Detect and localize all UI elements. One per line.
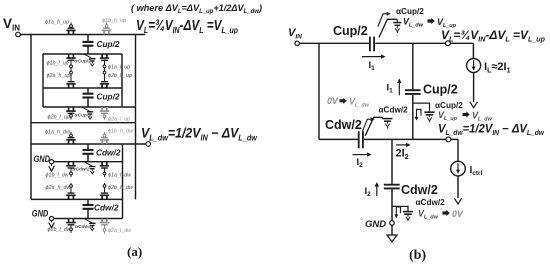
svg-text:GND: GND (34, 154, 51, 164)
node (open terminal) (390, 221, 395, 226)
wire (319, 138, 358, 140)
wire (43, 87, 122, 89)
capacitor Cup/2 (83, 42, 94, 46)
svg-text:αCup/2: αCup/2 (396, 7, 424, 16)
wire (20, 34, 145, 36)
svg-text:Cup/2: Cup/2 (97, 39, 120, 49)
transistor phi1b_l_up (66, 54, 75, 70)
capacitor Cdw/2 (vertical, bottom) (384, 185, 400, 189)
wire (299, 42, 369, 44)
transistor phi2a_h_up (66, 70, 75, 89)
wire (375, 42, 473, 44)
wire (43, 106, 136, 108)
svg-text:Cdw/2: Cdw/2 (94, 203, 119, 213)
transistor phi1b_l_dw (66, 162, 75, 177)
wire (457, 139, 459, 161)
wire (364, 138, 458, 140)
ground (upper GND arrow) (51, 164, 53, 166)
wire (42, 54, 44, 107)
svg-text:αCdw/2: αCdw/2 (73, 167, 90, 173)
wire (121, 54, 123, 107)
transistor phi1b_h_up (102, 22, 111, 34)
capacitor Cup/2 (83, 94, 94, 98)
node (open terminal) (446, 137, 451, 142)
ground (IL arrow) (470, 102, 478, 108)
svg-text:(a): (a) (127, 244, 142, 259)
transistor phi2b_h_up (100, 70, 109, 89)
ground (49, 223, 55, 228)
node (open terminal) (16, 32, 21, 37)
transistor phi2a_h_dw (66, 183, 75, 200)
capacitor alphaCup/2 parasitic (mid) (424, 112, 434, 122)
svg-text:Cdw/2: Cdw/2 (325, 118, 362, 132)
node (open terminal) (49, 216, 53, 220)
svg-text:0V: 0V (452, 209, 464, 219)
svg-text:ϕ2b_l_up: ϕ2b_l_up (48, 115, 70, 121)
capacitor alphaCdw/2 parasitic (bottom) (403, 212, 413, 222)
wire (122, 144, 124, 219)
ground (49, 166, 55, 171)
capacitor alphaCdw/2 parasitic (left) (383, 117, 393, 128)
transistor phi2b_h_dw (100, 183, 109, 200)
wire (31, 198, 123, 200)
capacitor alphaCup/2 s1 (parasitic to ground) (84, 54, 96, 66)
svg-text:Cup/2: Cup/2 (423, 83, 458, 97)
transistor phi1a_l_dw (100, 162, 109, 177)
svg-text:ϕ1b_l_up: ϕ1b_l_up (47, 61, 69, 67)
wire (52, 161, 123, 163)
svg-text:Cup/2: Cup/2 (97, 92, 120, 102)
wire (31, 122, 136, 124)
wire (391, 225, 393, 235)
transistor phi1a_h_dw (66, 132, 75, 144)
label 2I2 current arrow (396, 143, 411, 147)
wire (87, 88, 89, 107)
label I2 current arrow (bottom, up) (375, 182, 379, 196)
svg-text:ϕ1a_l_dw: ϕ1a_l_dw (108, 173, 132, 179)
wire (391, 139, 393, 184)
svg-text:ϕ1a_h_dw: ϕ1a_h_dw (45, 130, 71, 136)
svg-text:αCdw/2: αCdw/2 (75, 224, 92, 230)
svg-text:αCdw/2: αCdw/2 (416, 198, 446, 207)
wire (391, 189, 393, 220)
transistor switch alphaCdw/2 (bottom) (392, 206, 408, 218)
wire (473, 73, 475, 102)
svg-text:ϕ2a_h_dw: ϕ2a_h_dw (46, 185, 72, 191)
transistor switch alphaCup/2 (top) (378, 12, 397, 38)
capacitor Cdw/2 (83, 205, 94, 209)
svg-text:(b): (b) (409, 248, 426, 263)
capacitor Cdw/2 (series, lower) (359, 131, 363, 148)
svg-text:ϕ1a_l_up: ϕ1a_l_up (108, 65, 130, 71)
svg-text:ϕ1b_h_dw: ϕ1b_h_dw (108, 129, 134, 135)
transistor switch alphaCdw/2 (left) (362, 117, 382, 136)
transistor switch alphaCup/2 (mid) (413, 103, 430, 121)
wire (87, 199, 89, 218)
current source Ictrl (451, 161, 466, 176)
ground (lower GND arrow) (51, 221, 53, 223)
capacitor Cup/2 (series, top) (370, 37, 374, 52)
transistor phi1a_l_up (100, 54, 109, 70)
wire (472, 43, 474, 58)
svg-text:GND: GND (365, 219, 386, 230)
svg-text:αCup/2: αCup/2 (435, 101, 463, 110)
wire (135, 35, 137, 200)
transistor phi2b_l_up (66, 107, 75, 119)
ground (Ictrl arrow) (454, 198, 462, 204)
label I1 current arrow (top) (362, 54, 386, 58)
capacitor alphaCup/2 s2 (parasitic to ground) (82, 107, 94, 119)
svg-text:ϕ2a_h_up: ϕ2a_h_up (47, 73, 71, 79)
capacitor alphaCdw/2 s4 (parasitic to ground) (84, 219, 96, 231)
capacitor alphaCup/2 parasitic (top) (393, 19, 401, 33)
svg-text:ϕ2b_h_up: ϕ2b_h_up (108, 73, 132, 79)
svg-text:GND: GND (32, 209, 49, 219)
label I2 current arrow (lower) (353, 152, 372, 156)
transistor phi2a_l_up (100, 107, 109, 120)
wire (412, 43, 414, 89)
wire (318, 43, 320, 139)
svg-text:0V: 0V (327, 96, 339, 106)
current source IL (467, 59, 481, 73)
node (open terminal) (295, 41, 299, 45)
wire (412, 95, 414, 139)
node (open terminal) (49, 160, 53, 164)
svg-text:ϕ1a_h_up: ϕ1a_h_up (45, 20, 69, 26)
svg-text:Cup/2: Cup/2 (333, 24, 368, 38)
wire (87, 144, 89, 162)
svg-text:ϕ1b_h_up: ϕ1b_h_up (102, 18, 126, 24)
transistor phi2b_l_dw (66, 219, 75, 233)
capacitor alphaCdw/2 s3 (parasitic to ground) (84, 162, 96, 174)
node (open terminal) (446, 41, 451, 46)
svg-text:ϕ2b_h_dw: ϕ2b_h_dw (108, 185, 134, 191)
transistor phi1b_h_dw (100, 132, 109, 144)
transistor phi2a_l_dw (100, 219, 109, 234)
svg-text:ϕ1b_l_dw: ϕ1b_l_dw (46, 173, 70, 179)
svg-text:ϕ2a_l_dw: ϕ2a_l_dw (108, 228, 132, 234)
svg-text:ϕ2a_l_up: ϕ2a_l_up (108, 117, 130, 123)
svg-text:Cdw/2: Cdw/2 (401, 183, 438, 197)
node (open terminal) (146, 142, 151, 147)
wire (31, 143, 146, 145)
wire (87, 35, 89, 55)
svg-text:αCup/2: αCup/2 (75, 113, 92, 119)
label I1 current arrow (mid, up) (397, 78, 401, 95)
svg-text:αCup/2: αCup/2 (75, 59, 92, 65)
wire (52, 218, 123, 220)
svg-text:αCdw/2: αCdw/2 (379, 106, 409, 115)
wire (457, 176, 459, 198)
capacitor Cup/2 (vertical, mid) (405, 90, 421, 94)
transistor phi1a_h_up (66, 22, 75, 34)
wire (30, 35, 32, 200)
ground (b triangle) (387, 235, 397, 242)
svg-text:Cdw/2: Cdw/2 (96, 148, 121, 158)
wire (43, 53, 122, 55)
capacitor Cdw/2 (83, 150, 94, 154)
